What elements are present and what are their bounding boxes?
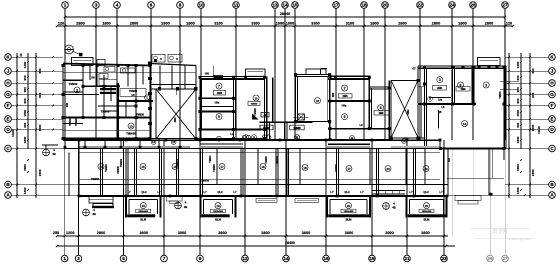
svg-text:TM900: TM900: [254, 108, 257, 116]
dimension values top: [58, 12, 512, 26]
dimension values right: [516, 61, 541, 194]
svg-text:1000: 1000: [276, 22, 284, 26]
unit A walls: [63, 58, 153, 141]
svg-text:13: 13: [463, 122, 467, 126]
svg-text:2800: 2800: [261, 231, 269, 235]
grid bubbles top row (1-27): [62, 2, 509, 9]
svg-text:18: 18: [361, 2, 367, 7]
svg-text:22: 22: [425, 204, 429, 208]
svg-text:U9a: U9a: [342, 103, 347, 107]
balcony B1: [126, 196, 161, 222]
svg-text:19: 19: [216, 204, 220, 208]
svg-text:TM900: TM900: [68, 117, 72, 126]
svg-text:8M9: 8M9: [333, 92, 335, 97]
svg-text:L7: L7: [203, 190, 207, 194]
svg-text:2800: 2800: [130, 22, 138, 26]
svg-text:G: G: [6, 92, 10, 97]
svg-text:L7: L7: [330, 190, 334, 194]
svg-text:E: E: [6, 116, 9, 121]
grid bubbles right column (K-A): [549, 54, 556, 199]
svg-text:10: 10: [254, 96, 258, 100]
svg-text:4M9: 4M9: [173, 117, 177, 123]
svg-text:11640: 11640: [537, 126, 541, 134]
porch steps right: [455, 196, 481, 205]
columns unit D: [423, 66, 506, 151]
svg-text:2300: 2300: [38, 169, 42, 176]
svg-text:17: 17: [333, 2, 339, 7]
svg-text:13: 13: [272, 2, 278, 7]
svg-text:1500x900: 1500x900: [344, 211, 355, 213]
unit A labels: [66, 76, 179, 174]
svg-text:120: 120: [58, 22, 64, 26]
svg-text:L7: L7: [127, 190, 131, 194]
svg-text:9: 9: [218, 115, 220, 119]
svg-text:J: J: [7, 68, 10, 73]
dimension line bottom: [56, 235, 455, 247]
svg-text:1500x900: 1500x900: [213, 211, 224, 213]
detail callout F top: [65, 45, 150, 100]
svg-text:3: 3: [76, 88, 78, 92]
svg-text:2800: 2800: [432, 22, 440, 26]
band beams and stubs: [64, 139, 440, 149]
dimension line top: [56, 16, 514, 27]
svg-text:3100: 3100: [346, 22, 354, 26]
svg-text:900: 900: [23, 87, 27, 92]
unit B labels: [205, 74, 258, 136]
svg-text:10: 10: [198, 2, 204, 7]
svg-text:TM900: TM900: [74, 117, 78, 126]
svg-text:TM900: TM900: [213, 164, 216, 172]
svg-text:1500: 1500: [23, 110, 27, 117]
svg-text:7: 7: [218, 84, 220, 88]
porch steps middle: [256, 199, 319, 203]
svg-text:2300: 2300: [531, 169, 535, 176]
svg-text:2600: 2600: [398, 22, 406, 26]
svg-text:6: 6: [150, 2, 153, 7]
svg-text:20: 20: [382, 2, 388, 7]
svg-text:QL2: QL2: [423, 190, 429, 194]
svg-text:BLM: BLM: [424, 218, 431, 222]
svg-text:900: 900: [66, 102, 69, 107]
svg-text:14: 14: [283, 256, 289, 261]
svg-text:18: 18: [261, 165, 265, 169]
svg-text:600: 600: [531, 68, 535, 73]
svg-text:23: 23: [441, 256, 447, 261]
svg-text:4B: 4B: [92, 212, 96, 216]
svg-text:U9a: U9a: [215, 101, 220, 105]
svg-text:3: 3: [485, 83, 487, 87]
svg-text:J: J: [551, 68, 554, 73]
columns unit B: [195, 76, 267, 140]
svg-text:7: 7: [344, 86, 346, 90]
dimension lines right: [505, 53, 549, 198]
svg-text:2M8: 2M8: [217, 91, 223, 95]
svg-text:TM900: TM900: [91, 177, 100, 181]
svg-text:16: 16: [173, 165, 177, 169]
grid lines vertical top: [65, 9, 505, 140]
svg-text:2M9: 2M9: [461, 88, 466, 91]
svg-text:9: 9: [344, 115, 346, 119]
svg-text:3600: 3600: [421, 231, 429, 235]
svg-text:TM900: TM900: [119, 158, 123, 167]
svg-text:筑龙网: 筑龙网: [492, 228, 507, 235]
svg-text:12: 12: [242, 256, 248, 261]
grid line stubs left upper: [50, 57, 63, 130]
svg-text:22: 22: [417, 2, 423, 7]
svg-text:14: 14: [99, 165, 103, 169]
svg-text:BLM: BLM: [346, 218, 353, 222]
svg-text:2M9: 2M9: [379, 112, 384, 115]
svg-text:9: 9: [199, 256, 202, 261]
left lower protrusion: [89, 196, 114, 208]
svg-text:L9a: L9a: [438, 98, 443, 101]
svg-text:2800: 2800: [485, 22, 493, 26]
svg-text:1500: 1500: [38, 124, 42, 131]
svg-text:1400: 1400: [23, 61, 27, 68]
beam labels L7 QL2: [127, 190, 443, 194]
balcony B2: [201, 196, 236, 222]
svg-text:1500x900: 1500x900: [138, 211, 149, 213]
stair core 3 with X brace: [390, 67, 420, 140]
svg-text:15: 15: [292, 2, 298, 7]
svg-text:3600: 3600: [140, 231, 148, 235]
svg-text:TM900: TM900: [129, 89, 138, 93]
middle band walls: [63, 140, 448, 196]
svg-text:TM900: TM900: [335, 164, 338, 172]
svg-text:L7: L7: [157, 190, 161, 194]
svg-text:3600: 3600: [218, 231, 226, 235]
svg-text:15: 15: [141, 165, 145, 169]
svg-text:4B: 4B: [392, 206, 396, 210]
unit B walls: [196, 66, 267, 140]
svg-text:1M900: 1M900: [293, 128, 301, 130]
svg-text:23: 23: [424, 167, 428, 171]
svg-text:6: 6: [380, 106, 382, 110]
svg-text:2600: 2600: [161, 22, 169, 26]
svg-text:26: 26: [470, 2, 476, 7]
svg-text:1800: 1800: [102, 22, 110, 26]
grid bubbles bottom row (1-23): [61, 255, 447, 262]
grid bubbles left column (K-A): [5, 54, 12, 199]
svg-text:20: 20: [386, 167, 390, 171]
svg-text:G7: G7: [412, 67, 416, 71]
columns unit A: [62, 64, 152, 140]
grid bubbles bottom row 26 27 (gray): [487, 255, 509, 262]
svg-text:1500: 1500: [516, 110, 520, 117]
svg-text:27: 27: [502, 256, 508, 261]
columns unit C: [329, 76, 393, 141]
svg-text:900: 900: [516, 98, 520, 103]
unit D room numbers 3 8 3 13: [437, 77, 489, 127]
svg-text:2800: 2800: [97, 231, 105, 235]
columns middle band: [78, 139, 449, 198]
dimension values bottom: [53, 231, 430, 245]
svg-text:3: 3: [95, 2, 98, 7]
svg-text:QL2: QL2: [141, 190, 147, 194]
svg-text:3600: 3600: [23, 164, 27, 171]
svg-text:22: 22: [347, 204, 351, 208]
svg-text:TM900: TM900: [265, 156, 268, 164]
svg-text:14: 14: [282, 2, 288, 7]
svg-text:1500x900: 1500x900: [422, 211, 433, 213]
balcony B3: [327, 196, 370, 222]
svg-text:2: 2: [77, 256, 80, 261]
svg-text:900: 900: [516, 75, 520, 80]
svg-text:TM900: TM900: [69, 82, 78, 86]
unit C room numbers 7 9 6: [342, 85, 384, 120]
svg-text:17: 17: [220, 165, 224, 169]
svg-text:6M9: 6M9: [406, 109, 410, 115]
svg-text:F: F: [7, 103, 10, 108]
svg-text:3000: 3000: [178, 231, 186, 235]
svg-text:3300: 3300: [251, 22, 259, 26]
svg-text:TM900: TM900: [251, 104, 259, 106]
svg-text:120: 120: [506, 22, 512, 26]
svg-text:1200: 1200: [66, 231, 74, 235]
svg-text:TM900: TM900: [101, 110, 110, 114]
unit A room numbers 3 13: [74, 87, 134, 129]
unit C labels: [333, 92, 384, 127]
svg-text:300: 300: [516, 122, 520, 127]
svg-text:BLM: BLM: [215, 218, 222, 222]
middle band labels: [91, 155, 451, 183]
svg-text:4: 4: [116, 2, 119, 7]
svg-text:1B: 1B: [438, 111, 441, 114]
svg-text:1000: 1000: [286, 22, 294, 26]
svg-text:17: 17: [347, 167, 351, 171]
svg-text:1300: 1300: [23, 187, 27, 194]
detail callout A: [42, 145, 58, 156]
watermark gray: [470, 228, 535, 241]
unit B room numbers 7 9 10: [216, 83, 259, 120]
svg-text:QL2: QL2: [217, 190, 223, 194]
right porch area lines: [444, 149, 546, 197]
svg-text:1800: 1800: [458, 22, 466, 26]
svg-text:4B: 4B: [264, 114, 267, 117]
svg-text:1300: 1300: [516, 187, 520, 194]
svg-text:900: 900: [531, 92, 535, 97]
svg-text:1800: 1800: [186, 22, 194, 26]
stair core 1 with X brace: [148, 55, 198, 141]
svg-text:1: 1: [63, 256, 66, 261]
balcony B4: [407, 196, 447, 222]
middle band room numbers: [98, 164, 429, 172]
svg-text:TM900: TM900: [201, 179, 210, 183]
svg-text:F: F: [551, 103, 554, 108]
svg-text:16: 16: [323, 256, 329, 261]
svg-text:3100: 3100: [214, 22, 222, 26]
corridor walls: [418, 87, 425, 138]
svg-text:250: 250: [53, 231, 59, 235]
svg-text:2M8: 2M8: [342, 94, 348, 98]
svg-text:L7: L7: [439, 190, 443, 194]
entrance recess walls: [242, 78, 330, 140]
dimension lines left: [11, 53, 54, 198]
svg-text:3600: 3600: [516, 164, 520, 171]
svg-text:1: 1: [64, 2, 67, 7]
svg-text:1800: 1800: [370, 22, 378, 26]
construction lines gray bottom right: [452, 148, 505, 255]
connector beam between balconies: [372, 191, 405, 195]
svg-text:11640: 11640: [11, 129, 15, 137]
svg-text:1800: 1800: [516, 136, 520, 143]
hall room walls: [294, 69, 331, 140]
svg-text:900: 900: [516, 87, 520, 92]
svg-text:900: 900: [23, 98, 27, 103]
svg-text:3000: 3000: [385, 231, 393, 235]
svg-text:300: 300: [23, 122, 27, 127]
unit C walls: [328, 76, 391, 139]
svg-text:16: 16: [316, 99, 320, 103]
entrance recess walls: [242, 78, 330, 140]
svg-text:24: 24: [449, 2, 455, 7]
unit D labels: [428, 86, 502, 115]
svg-text:TM9000: TM9000: [126, 132, 136, 136]
svg-text:27: 27: [502, 2, 508, 7]
svg-text:600: 600: [38, 68, 42, 73]
beam circles on band: [151, 135, 406, 145]
svg-text:8: 8: [179, 2, 182, 7]
svg-text:3600: 3600: [302, 231, 310, 235]
svg-text:L7: L7: [233, 190, 237, 194]
svg-text:TM9000: TM9000: [277, 155, 279, 164]
svg-text:L7: L7: [409, 190, 413, 194]
svg-text:21: 21: [404, 256, 410, 261]
grid lines vertical bottom: [65, 140, 444, 236]
svg-text:2800: 2800: [76, 22, 84, 26]
svg-text:QL2: QL2: [344, 190, 350, 194]
svg-text:S6: S6: [91, 76, 95, 80]
dimension values left: [11, 53, 42, 194]
svg-text:3300: 3300: [311, 22, 319, 26]
grid line stubs left lower: [50, 149, 92, 196]
svg-text:2M8: 2M8: [437, 87, 442, 90]
grid line stubs bottom: [65, 236, 444, 255]
svg-text:26: 26: [487, 256, 493, 261]
svg-text:G: G: [550, 92, 554, 97]
svg-text:7: 7: [163, 256, 166, 261]
svg-text:L7: L7: [360, 190, 364, 194]
svg-text:4B: 4B: [52, 152, 56, 156]
svg-text:900: 900: [23, 75, 27, 80]
unit D walls: [418, 58, 519, 149]
svg-text:3: 3: [439, 78, 441, 82]
svg-text:3600: 3600: [345, 231, 353, 235]
svg-text:1800: 1800: [23, 136, 27, 143]
svg-text:zhulong.com: zhulong.com: [509, 236, 532, 241]
detail callout B: [83, 208, 96, 216]
svg-text:1400: 1400: [516, 61, 520, 68]
svg-text:TM900: TM900: [500, 91, 502, 99]
svg-text:19: 19: [142, 204, 146, 208]
svg-text:TM900: TM900: [105, 164, 108, 172]
svg-text:900: 900: [38, 92, 42, 97]
detail callout C: [175, 201, 188, 210]
svg-text:5: 5: [122, 256, 125, 261]
svg-text:13: 13: [129, 124, 133, 128]
svg-text:E: E: [550, 116, 553, 121]
svg-text:BLM: BLM: [140, 218, 147, 222]
svg-text:4B: 4B: [184, 205, 188, 209]
svg-text:19: 19: [369, 256, 375, 261]
porch steps left: [167, 197, 183, 204]
svg-text:18: 18: [303, 166, 307, 170]
svg-text:TM900: TM900: [210, 155, 212, 163]
svg-text:1500: 1500: [531, 124, 535, 131]
svg-text:11: 11: [234, 2, 239, 7]
svg-text:28400: 28400: [285, 241, 295, 245]
svg-text:7M900: 7M900: [263, 128, 271, 130]
detail callout E: [383, 202, 396, 210]
